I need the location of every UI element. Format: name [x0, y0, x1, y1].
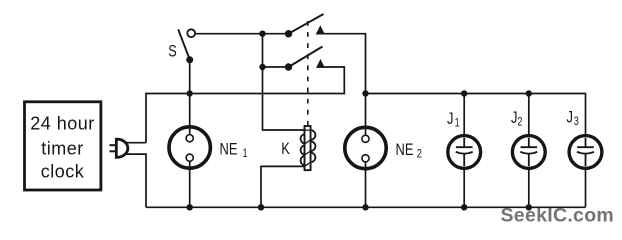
label S	[168, 42, 176, 61]
relay coil K winding loops (right side)	[311, 130, 316, 162]
wire: relay coil bottom terminal down to bottom bus	[261, 166, 305, 207]
svg-text:NE: NE	[396, 140, 414, 159]
relay contact 1 pivot dot	[285, 30, 292, 37]
label NE2	[396, 140, 414, 159]
node: S/NE1 top bus junction	[187, 90, 193, 96]
node: NE1 bottom bus junction	[187, 204, 193, 210]
svg-text:NE: NE	[220, 140, 238, 159]
svg-text:J: J	[447, 109, 453, 128]
node: junction rail2 / coil feed	[259, 64, 265, 70]
svg-text:1: 1	[243, 147, 248, 161]
node: J2 top bus junction	[526, 90, 532, 96]
NE2 top electrode	[362, 135, 369, 142]
svg-text:2: 2	[417, 147, 422, 161]
svg-text:3: 3	[574, 115, 579, 129]
wire: J1 bottom stub	[463, 169, 465, 207]
node: NE2 bottom bus junction	[362, 204, 368, 210]
relay coil K core	[305, 126, 311, 170]
relay actuation dashed link	[307, 21, 309, 126]
wire: NE2 bottom to bottom bus	[365, 170, 367, 207]
NE1 electrode leads	[189, 126, 191, 135]
wire: bottom bus	[146, 206, 586, 208]
label J2	[511, 109, 517, 128]
switch S fixed terminal (open circle)	[187, 29, 195, 37]
NE1 bottom electrode	[186, 154, 193, 161]
switch S lever	[178, 29, 190, 59]
outlet jack J3	[569, 136, 602, 169]
wire: left bus from plug top wire up, top bus left section, up to contact-2 output	[146, 67, 344, 143]
wire: rail 1 from S circle to contact pivot	[195, 33, 289, 35]
node: NE2 top bus junction	[362, 90, 368, 96]
wire: J3 bottom stub	[585, 169, 587, 207]
wire: plug top lead	[127, 142, 147, 144]
wire: NE1 bottom to bottom bus	[189, 170, 191, 208]
wire: J1 top stub	[463, 94, 465, 135]
node: junction rail1 / coil feed	[259, 31, 265, 37]
label K	[281, 141, 290, 159]
NE2 bottom electrode	[362, 155, 369, 162]
svg-text:24 hour: 24 hour	[30, 114, 95, 134]
node: coil K bottom bus junction	[258, 204, 264, 210]
relay contact 2 fixed contact (triangle)	[316, 59, 325, 68]
label J1	[447, 109, 453, 128]
wire: rail 2 junction to contact 2 pivot	[263, 66, 289, 68]
NE1 top electrode	[186, 135, 193, 142]
neon lamp NE2	[345, 127, 386, 168]
plug P	[110, 139, 128, 157]
timer box label	[30, 114, 95, 182]
relay contact 2 pivot dot	[285, 63, 292, 70]
wire: top bus right section, corner down to J3	[366, 94, 586, 135]
switch S moving-end dot	[186, 56, 193, 63]
node: J2 bottom bus junction	[526, 204, 532, 210]
svg-text:S: S	[168, 42, 176, 61]
wire: vertical from contact1 junction down to relay coil top terminal	[263, 34, 305, 130]
svg-text:K: K	[281, 141, 290, 159]
svg-text:2: 2	[517, 115, 522, 129]
svg-text:timer: timer	[41, 139, 84, 159]
relay contact 2 lever	[289, 47, 323, 68]
timer box	[25, 102, 101, 190]
node: J1 top bus junction	[461, 90, 467, 96]
outlet jack J2	[512, 136, 545, 169]
svg-text:J: J	[511, 109, 517, 128]
outlet jack J1	[448, 136, 481, 169]
wire: contact 1 output right and down to top bus junction	[324, 34, 366, 126]
wire: switch S vertical down through bus to NE1 top	[189, 60, 191, 126]
node: J1 bottom bus junction	[461, 204, 467, 210]
svg-text:1: 1	[455, 116, 460, 130]
relay coil K winding crossovers	[305, 130, 311, 166]
label J3	[567, 108, 573, 127]
svg-text:J: J	[567, 108, 573, 127]
svg-text:clock: clock	[41, 162, 85, 182]
NE2 electrode leads	[365, 127, 367, 136]
wire: J2 bottom stub	[528, 169, 530, 207]
relay contact 1 fixed contact (triangle)	[316, 25, 325, 34]
wire: plug bottom lead down to bottom bus	[127, 154, 147, 207]
relay contact 1 lever	[289, 14, 324, 34]
relay coil K winding loops (left side)	[301, 134, 305, 165]
label NE1	[220, 140, 238, 159]
neon lamp NE1	[169, 127, 210, 168]
wire: J2 top stub	[528, 94, 530, 135]
relay coil K core outline (redrawn)	[305, 126, 311, 170]
